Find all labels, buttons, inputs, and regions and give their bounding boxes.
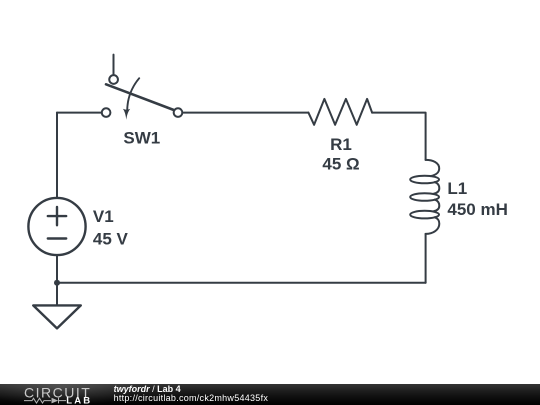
wire: SW1 right terminal to resistor R1 xyxy=(182,112,308,114)
wire: V1 bottom to junction xyxy=(56,255,58,283)
wire: left vertical from top wire down to V1 top xyxy=(56,113,58,198)
L1 bulge 1 xyxy=(434,182,440,194)
footer bar xyxy=(0,384,540,405)
logo glow xyxy=(0,384,190,405)
resistor R1 xyxy=(308,99,372,125)
svg-text:SW1: SW1 xyxy=(123,128,160,147)
switch SW1 xyxy=(102,55,183,120)
wire: R1 to top-right corner and down to L1 top xyxy=(372,113,426,160)
L1 bottom hook xyxy=(426,217,440,234)
ground symbol xyxy=(33,305,81,328)
L1 loop 1 xyxy=(410,176,439,184)
inductor L1 xyxy=(410,160,439,234)
footer text xyxy=(114,385,269,404)
SW1 motion arrow arc xyxy=(127,78,139,111)
L1 bulge 2 xyxy=(434,200,440,212)
svg-text:450 mH: 450 mH xyxy=(447,200,507,219)
SW1 top stub wire xyxy=(113,55,115,76)
svg-text:45 V: 45 V xyxy=(93,230,129,249)
junction node dot xyxy=(54,280,60,286)
SW1 right terminal circle xyxy=(174,108,183,117)
V1 plus sign xyxy=(48,207,66,225)
L1 loop 3 xyxy=(410,211,439,219)
V1 minus sign xyxy=(48,237,66,239)
SW1 arm xyxy=(106,84,174,110)
wire: bottom horizontal xyxy=(57,282,426,284)
SW1 top terminal circle xyxy=(109,75,118,84)
CircuitLab logo xyxy=(0,384,110,405)
svg-text:LAB: LAB xyxy=(66,396,92,405)
voltage source V1 xyxy=(28,198,85,255)
logo circuit line with resistor and diode xyxy=(24,398,66,404)
SW1 left terminal circle xyxy=(102,108,111,117)
logo diode triangle xyxy=(52,398,59,404)
svg-text:R1: R1 xyxy=(330,135,352,154)
svg-text:L1: L1 xyxy=(447,179,467,198)
wire: L1 bottom to bottom-right corner xyxy=(425,234,427,283)
L1 top hook xyxy=(426,160,440,176)
wire: top-left horizontal from left corner to SW1 left terminal xyxy=(57,112,102,114)
V1 circle xyxy=(28,198,85,255)
svg-text:45 Ω: 45 Ω xyxy=(322,155,359,174)
svg-text:V1: V1 xyxy=(93,207,114,226)
wire: junction to ground xyxy=(56,283,58,306)
L1 loop 2 xyxy=(410,193,439,201)
SW1 arrow head xyxy=(123,109,130,120)
